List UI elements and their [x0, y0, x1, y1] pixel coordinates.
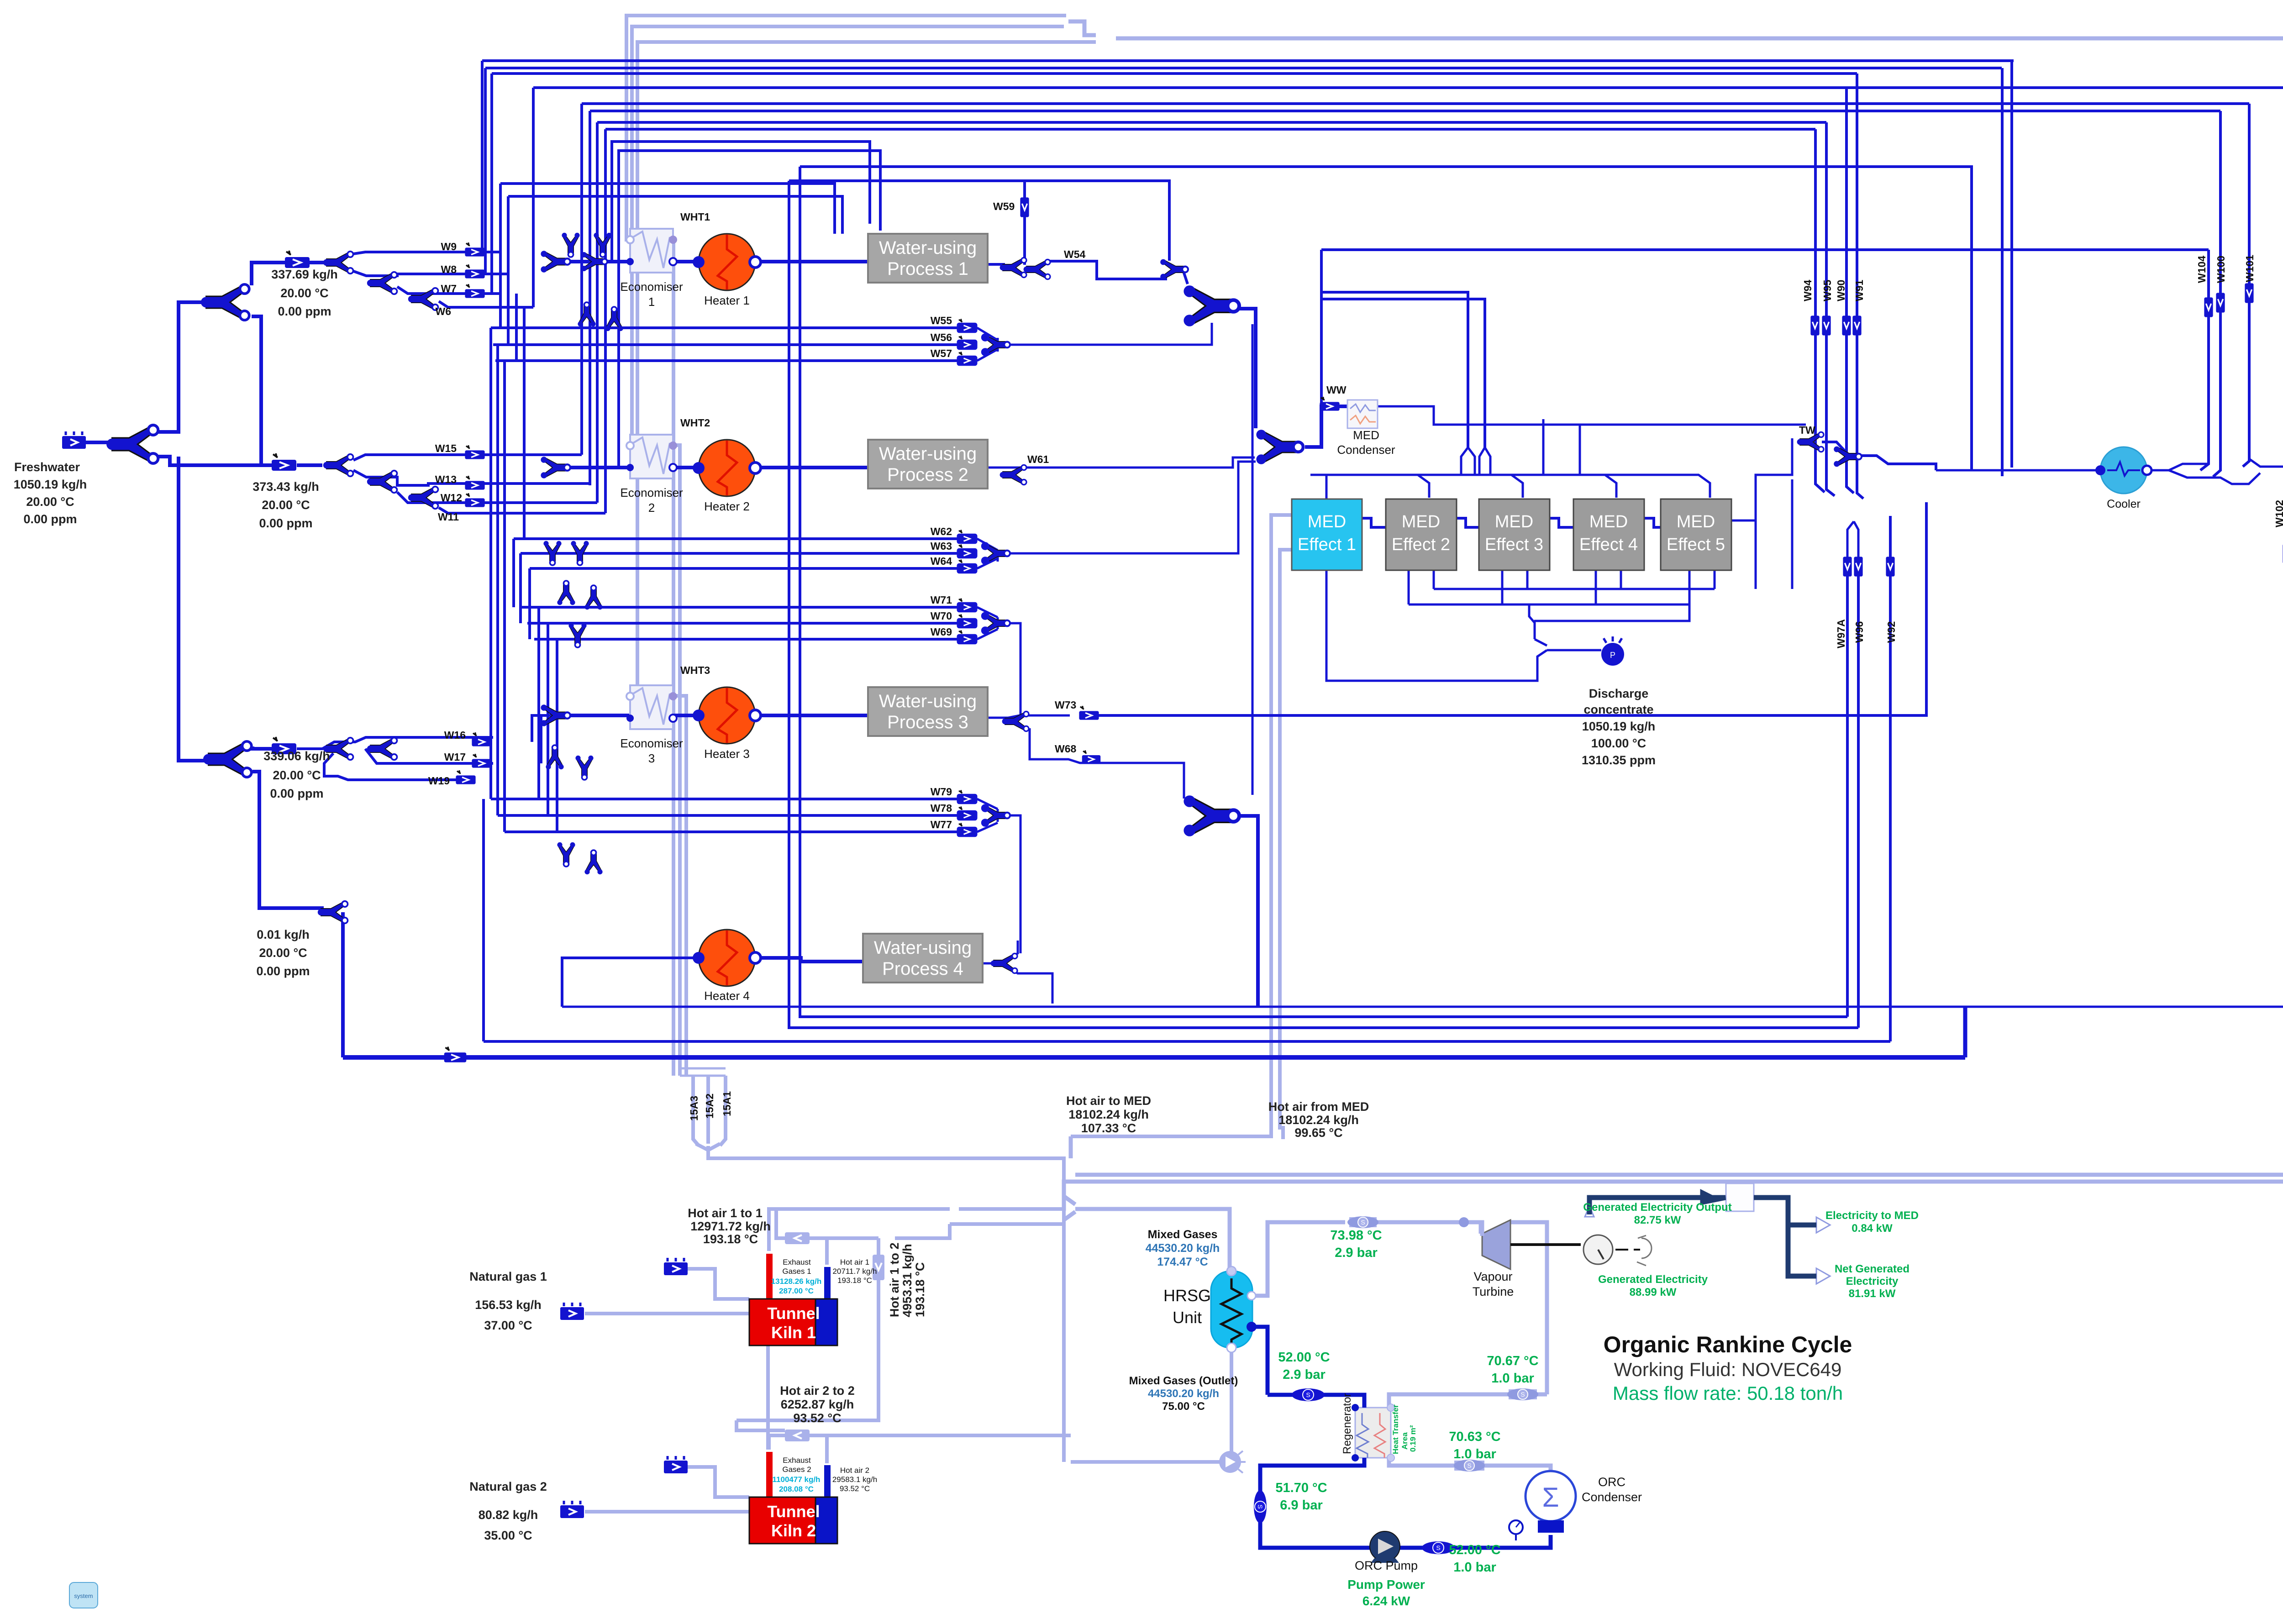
wire M2 out to WW — [1305, 406, 1347, 447]
wire 15A2 drop — [706, 1076, 710, 1144]
node 15A fan — [680, 1068, 726, 1076]
wire kiln1 hot air out — [776, 1209, 878, 1265]
splitter YG 0.01 — [318, 901, 348, 924]
valve bottom return — [444, 1047, 467, 1062]
W91 valve — [1852, 315, 1861, 335]
wire bundle x1148 — [523, 307, 526, 539]
wire MED interlinks — [1362, 518, 1667, 527]
svg-text:6.24 kW: 6.24 kW — [1362, 1594, 1410, 1608]
svg-text:193.18 °C: 193.18 °C — [913, 1262, 927, 1317]
wire TW to cooler — [1936, 469, 2101, 472]
svg-text:WHT1: WHT1 — [680, 211, 710, 223]
svg-text:Water-using: Water-using — [879, 691, 977, 711]
wire W90 riser — [1846, 88, 1854, 493]
svg-text:Kiln 2: Kiln 2 — [771, 1521, 816, 1540]
wire loop top y268 — [597, 121, 1826, 124]
svg-text:Effect 4: Effect 4 — [1579, 535, 1638, 554]
valve W56 — [958, 336, 977, 349]
svg-text:W17: W17 — [444, 751, 466, 763]
turbine shaft — [1510, 1243, 1581, 1246]
label W79 W78 W77 — [931, 786, 952, 830]
wire bottom thick return — [343, 1055, 1965, 1060]
label 51.70C — [1275, 1481, 1327, 1513]
discharge pump — [1601, 636, 1624, 666]
svg-text:1.0 bar: 1.0 bar — [1491, 1371, 1534, 1386]
svg-text:Electricity to MED: Electricity to MED — [1825, 1209, 1919, 1222]
svg-text:0.19 m²: 0.19 m² — [1409, 1425, 1417, 1452]
valve W7 — [465, 284, 484, 298]
label W16 W17 W19 — [428, 729, 466, 787]
mixer hot-air Y1 top — [1068, 21, 1096, 35]
wire merge to M1 — [1183, 270, 1188, 284]
wire W6 — [439, 301, 533, 307]
svg-text:W63: W63 — [931, 540, 952, 552]
wire x1728 drop — [789, 181, 1858, 1028]
svg-text:MED: MED — [1589, 512, 1628, 531]
wire heater3 to process3 — [755, 714, 868, 717]
wire W91 riser — [1857, 74, 1863, 499]
wire hot-air outer loop to right edge — [1064, 38, 2283, 1211]
node W62-64 Y — [982, 543, 1010, 564]
wire left vertical bundle x1063 — [485, 68, 508, 274]
wire W19 — [324, 753, 459, 780]
svg-text:193.18 °C: 193.18 °C — [837, 1276, 872, 1285]
wire M3 feed from top — [1252, 324, 1254, 795]
wire x1752 drop — [800, 167, 1972, 1017]
label net generated electricity — [1835, 1263, 1910, 1300]
wire hot-air supply 15A2 top — [630, 26, 1064, 446]
svg-text:15A2: 15A2 — [704, 1093, 715, 1119]
svg-text:156.53 kg/h: 156.53 kg/h — [475, 1298, 542, 1312]
wire W77 — [505, 830, 958, 833]
wire W71 — [521, 606, 958, 609]
mixer hot air M-a — [1064, 1196, 1075, 1220]
svg-text:Mixed Gases: Mixed Gases — [1148, 1228, 1218, 1241]
label 52.00C 1.0bar — [1449, 1543, 1500, 1575]
svg-text:W62: W62 — [931, 526, 952, 537]
svg-text:Economiser: Economiser — [620, 736, 683, 750]
wire W63 — [521, 552, 958, 555]
valve S vapour — [1349, 1217, 1377, 1227]
svg-text:Organic Rankine Cycle: Organic Rankine Cycle — [1604, 1332, 1852, 1357]
splitter S0 — [106, 425, 158, 463]
wire turbine outlet — [1510, 1222, 1547, 1394]
wire left vertical bundle x1056 — [482, 61, 500, 252]
wire MED effect tops header — [1310, 475, 1710, 499]
ORC S-valve pumpout — [1422, 1541, 1455, 1554]
svg-text:52.00 °C: 52.00 °C — [1449, 1543, 1500, 1557]
net electricity arrow — [1816, 1268, 1830, 1284]
node Y row1 b — [581, 252, 607, 271]
svg-text:MED: MED — [1495, 512, 1533, 531]
merge cluster row3 — [541, 704, 570, 726]
svg-text:12971.72 kg/h: 12971.72 kg/h — [690, 1219, 771, 1233]
svg-text:Turbine: Turbine — [1473, 1285, 1514, 1298]
label hot air 2 — [832, 1466, 877, 1493]
wire hot air 1 header2 — [895, 1224, 950, 1238]
svg-text:Exhaust: Exhaust — [783, 1258, 811, 1267]
splitter after process1 — [1000, 258, 1026, 277]
wire x4304 riser — [1963, 1007, 1967, 1057]
wire loop top y133 — [482, 59, 2014, 62]
svg-text:MED: MED — [1402, 512, 1440, 531]
svg-text:Hot air 2: Hot air 2 — [840, 1466, 869, 1475]
wire W97A drop — [1846, 574, 1849, 1017]
wire loop y330 — [619, 151, 880, 468]
wire hot air 1 to 2 drop — [736, 1238, 878, 1420]
wire gas return fan to kiln — [1071, 1460, 1220, 1464]
svg-text:WHT3: WHT3 — [680, 664, 710, 676]
mixer M1 — [1184, 285, 1239, 326]
W95 valve — [1822, 315, 1831, 335]
hot air 1to2 valve — [873, 1255, 884, 1280]
wire bundle x1185 — [540, 715, 542, 763]
valve W70 — [958, 615, 977, 628]
natural gas source 2 — [560, 1501, 584, 1518]
svg-text:6.9 bar: 6.9 bar — [1280, 1498, 1323, 1513]
svg-text:W96: W96 — [1853, 621, 1865, 643]
label economiser3 — [620, 736, 683, 765]
svg-text:Hot air 1: Hot air 1 — [840, 1258, 869, 1267]
valve W73 — [1079, 706, 1099, 720]
valve W19 — [456, 770, 475, 784]
svg-text:Heater 4: Heater 4 — [704, 989, 750, 1003]
label W9 W8 W7 W6 — [436, 241, 457, 317]
wire kiln1 air to process — [950, 1222, 1064, 1226]
svg-text:Heater 3: Heater 3 — [704, 747, 750, 761]
svg-text:system: system — [74, 1592, 93, 1599]
wire loop y402 process1 — [500, 184, 835, 234]
label vapour turbine — [1473, 1270, 1514, 1298]
wire WW riser — [1320, 250, 1323, 406]
label 0.01 stream — [256, 928, 310, 978]
svg-text:Economiser: Economiser — [620, 486, 683, 499]
wire W68 — [1030, 728, 1184, 799]
wire bundle x1113 — [507, 196, 510, 345]
svg-text:Area: Area — [1400, 1432, 1409, 1450]
generated electricity triangle — [1585, 1206, 1594, 1217]
wire bundle x1160 — [528, 568, 531, 639]
air source 2 — [664, 1456, 688, 1473]
wire loop top y149 — [485, 67, 2002, 69]
svg-text:13128.26 kg/h: 13128.26 kg/h — [771, 1277, 822, 1286]
svg-text:Pump Power: Pump Power — [1347, 1577, 1425, 1592]
svg-text:Electricity: Electricity — [1846, 1275, 1899, 1288]
splitter YH row3 — [323, 738, 353, 760]
label mixed gases — [1146, 1228, 1220, 1268]
wire W77-79 merge — [977, 799, 1021, 953]
wire W95 riser — [1826, 122, 1835, 496]
node Y diamond a4 — [605, 307, 623, 331]
svg-text:W13: W13 — [435, 473, 457, 485]
label hot air 1 — [832, 1258, 877, 1285]
label natural gas 2 — [469, 1480, 547, 1542]
svg-text:Process 3: Process 3 — [887, 712, 968, 732]
splitter after process4 — [991, 953, 1017, 973]
svg-text:0.00 ppm: 0.00 ppm — [23, 512, 77, 526]
svg-text:W102: W102 — [2273, 500, 2283, 527]
svg-text:Heat Transfer: Heat Transfer — [1391, 1404, 1400, 1454]
wire row2 main feed — [566, 466, 630, 469]
wire W73 long line — [988, 715, 1070, 718]
svg-text:18102.24 kg/h: 18102.24 kg/h — [1068, 1108, 1149, 1121]
merge cluster row2 — [541, 457, 570, 478]
svg-text:Cooler: Cooler — [2107, 498, 2141, 510]
wire condenser feed drops — [1543, 419, 1580, 475]
wire MED top risers — [1461, 447, 1490, 475]
label W55 W56 W57 — [931, 315, 952, 359]
svg-text:Tunnel: Tunnel — [767, 1304, 820, 1323]
wire valve to turbine — [1377, 1222, 1481, 1234]
svg-text:Economiser: Economiser — [620, 280, 683, 294]
svg-text:P: P — [1610, 651, 1615, 660]
W100 valve — [2216, 293, 2225, 312]
wire 15A merge to kiln header — [708, 1146, 1064, 1187]
wire W62 — [514, 537, 958, 540]
wire kiln2 inlet loop — [736, 1420, 785, 1430]
node W77-79 Y — [982, 805, 1010, 826]
svg-text:1100477 kg/h: 1100477 kg/h — [773, 1475, 821, 1484]
node Y diamond d1 — [557, 842, 575, 867]
svg-text:W70: W70 — [931, 610, 952, 622]
svg-text:MED: MED — [1677, 512, 1715, 531]
label W62 W63 W64 — [931, 526, 952, 567]
node Y diamond b1 — [543, 541, 561, 565]
wire drain collector y1324 — [1409, 604, 1689, 621]
svg-text:ORC: ORC — [1598, 1475, 1625, 1489]
wire W64 — [530, 567, 958, 570]
wire W12 — [397, 492, 597, 503]
svg-text:W15: W15 — [435, 442, 457, 454]
node Y diamond a1 — [562, 233, 579, 257]
wire heater2 to process2 — [755, 466, 868, 469]
svg-text:37.00 °C: 37.00 °C — [484, 1319, 532, 1332]
svg-text:18102.24 kg/h: 18102.24 kg/h — [1278, 1113, 1359, 1127]
svg-text:MED: MED — [1308, 512, 1346, 531]
wire kiln2 hot air out — [825, 1435, 829, 1463]
wire bundle x1075 — [489, 328, 492, 799]
svg-text:W12: W12 — [441, 492, 462, 504]
svg-text:W73: W73 — [1055, 699, 1076, 711]
svg-text:Generated Electricity: Generated Electricity — [1598, 1273, 1708, 1286]
valve 337 — [285, 251, 310, 268]
wire loop top y283 — [605, 128, 1815, 131]
svg-text:3: 3 — [648, 752, 655, 765]
splitter YB row1 — [367, 272, 397, 294]
svg-text:W95: W95 — [1821, 280, 1833, 302]
label 70.63C — [1449, 1430, 1500, 1461]
wire kiln 1-2 link — [766, 1345, 770, 1450]
svg-text:44530.20 kg/h: 44530.20 kg/h — [1146, 1242, 1220, 1255]
wire econ3 to heater3 — [673, 714, 699, 717]
label W97A W96 W92 — [1835, 619, 1897, 648]
svg-text:Hot air 1 to 1: Hot air 1 to 1 — [688, 1206, 763, 1220]
wire W8 — [353, 271, 500, 276]
svg-text:Hot air 2 to 2: Hot air 2 to 2 — [780, 1384, 855, 1398]
valve W55 — [958, 319, 977, 332]
wire bundle x1105 — [503, 361, 506, 832]
svg-text:Hot air 1 to 2: Hot air 1 to 2 — [888, 1242, 901, 1317]
svg-text:W97A: W97A — [1835, 619, 1847, 648]
svg-text:29583.1 kg/h: 29583.1 kg/h — [832, 1475, 877, 1484]
label 15A3 15A2 15A1 — [688, 1091, 733, 1121]
valve W8 — [465, 264, 484, 278]
valve W15 — [465, 445, 484, 459]
splitter YE row2 — [367, 471, 397, 493]
svg-text:Regenerator: Regenerator — [1341, 1393, 1353, 1454]
wire left vertical bundle x1326 — [604, 129, 607, 513]
label 52.00C 2.9bar — [1278, 1350, 1330, 1382]
wire W61 to M2 — [988, 457, 1255, 468]
svg-text:52.00 °C: 52.00 °C — [1278, 1350, 1330, 1365]
svg-text:W19: W19 — [428, 775, 450, 787]
kiln1 out valve — [785, 1232, 810, 1244]
merge cluster row1 — [541, 251, 570, 273]
svg-text:W101: W101 — [2244, 255, 2256, 282]
svg-text:6252.87 kg/h: 6252.87 kg/h — [781, 1398, 854, 1411]
svg-text:93.52 °C: 93.52 °C — [840, 1484, 870, 1493]
wire right loop W100 drop — [2213, 111, 2220, 477]
ORC S-valve cold — [1254, 1490, 1267, 1523]
svg-text:Natural gas 2: Natural gas 2 — [469, 1480, 547, 1493]
svg-text:W59: W59 — [993, 200, 1015, 212]
splitter YC row1 — [408, 288, 438, 310]
svg-text:Hot air from MED: Hot air from MED — [1268, 1100, 1369, 1114]
wire 15A3 drop — [693, 1076, 699, 1146]
svg-text:2.9 bar: 2.9 bar — [1335, 1246, 1378, 1260]
merge W54/loop — [1160, 259, 1188, 280]
wire 0.01 branch — [341, 912, 345, 1057]
svg-text:44530.20 kg/h: 44530.20 kg/h — [1148, 1387, 1219, 1400]
svg-text:Process 4: Process 4 — [882, 959, 963, 979]
wire loop top y227 — [582, 102, 2249, 105]
W104 valve — [2204, 297, 2213, 317]
svg-text:Net Generated: Net Generated — [1835, 1263, 1910, 1275]
svg-text:Kiln 1: Kiln 1 — [771, 1323, 816, 1342]
HRSG unit — [1211, 1267, 1257, 1352]
valve WW — [1320, 397, 1339, 410]
splitter W54 — [1024, 259, 1050, 279]
svg-text:81.91 kW: 81.91 kW — [1849, 1288, 1896, 1300]
svg-text:20.00 °C: 20.00 °C — [273, 768, 321, 782]
economiser E1 — [626, 229, 677, 273]
svg-text:2: 2 — [648, 501, 655, 515]
wire kiln2 exhaust riser — [769, 1435, 1071, 1450]
wire HRSG gas outlet — [1230, 1348, 1233, 1452]
node Y diamond b4 — [584, 585, 602, 610]
svg-text:1: 1 — [648, 295, 655, 309]
svg-text:Process 1: Process 1 — [887, 259, 968, 279]
TW second splitter — [1834, 447, 1862, 467]
MED effect 1 box — [1292, 499, 1362, 570]
svg-text:35.00 °C: 35.00 °C — [484, 1529, 532, 1542]
vapour S-valve 3 — [1454, 1460, 1485, 1472]
wire W69 — [534, 638, 958, 641]
wire MED effect drains — [1409, 570, 1715, 604]
svg-text:287.00 °C: 287.00 °C — [779, 1287, 814, 1295]
svg-text:Gases 2: Gases 2 — [782, 1465, 811, 1474]
svg-text:0.00 ppm: 0.00 ppm — [259, 516, 312, 530]
wire natural gas 2 feed — [585, 1510, 749, 1514]
svg-text:Effect 2: Effect 2 — [1392, 535, 1450, 554]
valve 373 — [272, 453, 296, 471]
wire bundle x1090 — [496, 345, 499, 815]
svg-text:0.01 kg/h: 0.01 kg/h — [257, 928, 310, 941]
system icon — [69, 1582, 98, 1608]
svg-text:Gases 1: Gases 1 — [782, 1267, 811, 1276]
wire hot air from MED left — [1071, 515, 1292, 1136]
splitter YD row2 — [323, 454, 353, 477]
wire heater4 to process4 — [755, 958, 863, 962]
tunnel kiln 2 — [749, 1452, 837, 1544]
svg-text:Generated Electricity Output: Generated Electricity Output — [1583, 1201, 1731, 1214]
node Y diamond b3 — [557, 581, 575, 605]
label pump power — [1347, 1577, 1425, 1608]
node Y diamond b5 — [568, 623, 586, 647]
cooler — [2095, 447, 2151, 494]
wire process4 out branches — [983, 941, 1052, 1004]
wire left vertical bundle x1168 — [532, 88, 535, 307]
svg-text:W68: W68 — [1055, 743, 1077, 755]
valve S turbine out — [1509, 1389, 1537, 1399]
W94 valve — [1810, 315, 1819, 335]
MED effect 3 box — [1479, 499, 1550, 570]
svg-text:339.06 kg/h: 339.06 kg/h — [263, 749, 330, 763]
wire valve373 to W-fan row2 — [297, 463, 322, 467]
svg-text:100.00 °C: 100.00 °C — [1591, 736, 1646, 750]
MED effect 5 box — [1661, 499, 1731, 570]
valve 339 — [272, 737, 296, 754]
svg-text:4953.31 kg/h: 4953.31 kg/h — [900, 1244, 914, 1317]
svg-text:W7: W7 — [441, 283, 457, 294]
wire kiln1 exhaust riser — [769, 1209, 950, 1251]
svg-text:2.9 bar: 2.9 bar — [1283, 1367, 1326, 1382]
svg-text:20.00 °C: 20.00 °C — [280, 286, 328, 300]
svg-text:concentrate: concentrate — [1583, 703, 1653, 716]
svg-text:Working Fluid: NOVEC649: Working Fluid: NOVEC649 — [1614, 1359, 1842, 1380]
wire left vertical bundle x1308 — [596, 122, 599, 503]
wire main vertical x391 — [179, 457, 205, 761]
valve W68 — [1082, 751, 1101, 764]
valve W79 — [958, 790, 977, 804]
kiln2 out valve — [785, 1430, 810, 1441]
splitter YA row1 — [323, 252, 353, 274]
vapour S-valve 1 — [1347, 1216, 1378, 1228]
svg-text:W100: W100 — [2215, 256, 2227, 283]
wire W70 — [527, 622, 958, 625]
navy electricity wires — [1589, 1193, 1816, 1276]
wire hot-air return inner — [1075, 1173, 2283, 1177]
valve S regen out — [1454, 1461, 1484, 1471]
svg-text:Vapour: Vapour — [1473, 1270, 1512, 1283]
vapour S-valve 2 — [1507, 1388, 1538, 1400]
svg-text:93.52 °C: 93.52 °C — [793, 1411, 841, 1425]
wire right loop W101 drop — [2243, 104, 2249, 467]
wire loop y430 process1 — [508, 196, 842, 234]
svg-text:W69: W69 — [931, 626, 952, 638]
svg-text:373.43 kg/h: 373.43 kg/h — [252, 480, 319, 494]
wire W79 — [491, 798, 958, 800]
wire hot air 1 to 1 header — [959, 1207, 1064, 1211]
economiser E2 — [626, 435, 677, 478]
svg-text:174.47 °C: 174.47 °C — [1157, 1256, 1208, 1268]
wire y655 header — [1321, 299, 1485, 447]
W97A valve — [1843, 557, 1852, 576]
label exhaust gases 2 — [773, 1456, 821, 1493]
node Y diamond c1 — [546, 745, 563, 769]
svg-text:0.00 ppm: 0.00 ppm — [270, 787, 323, 800]
wire E1 bottom drain — [1326, 570, 1547, 681]
